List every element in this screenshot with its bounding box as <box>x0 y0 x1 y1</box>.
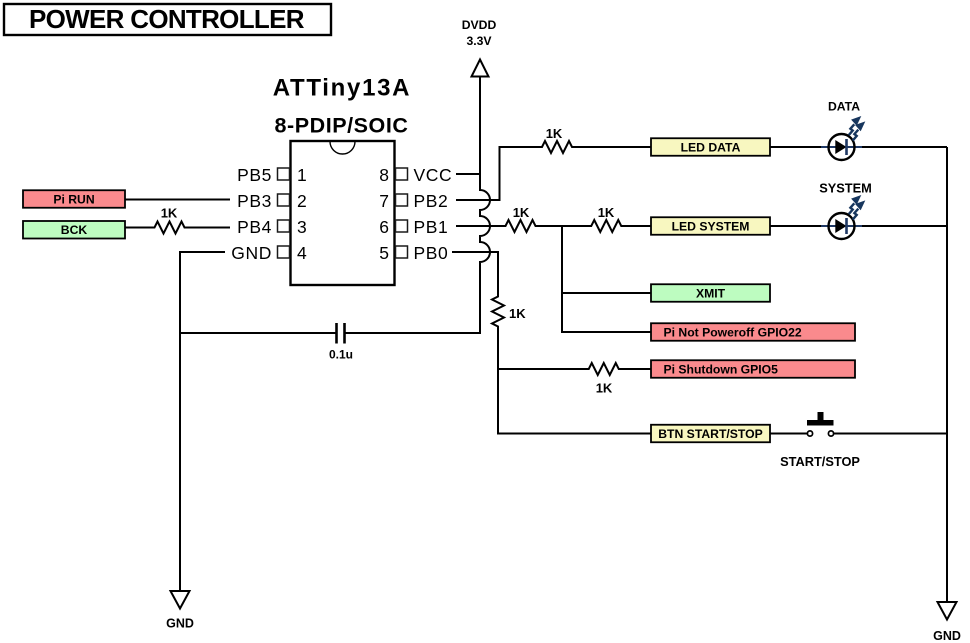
IC pin numbers <box>297 165 389 263</box>
wire XMIT branch <box>562 292 651 294</box>
wire resistor to Pi Shutdown box <box>624 368 651 370</box>
IC pin squares left <box>278 168 290 258</box>
wire resistor to LED DATA box <box>579 146 652 148</box>
svg-text:PB2: PB2 <box>414 191 449 211</box>
label box LED SYSTEM <box>651 217 770 235</box>
wire PB2 to riser up to LED DATA row <box>456 147 536 200</box>
svg-text:GND: GND <box>231 243 272 263</box>
title box POWER CONTROLLER <box>4 4 331 35</box>
label box Pi Shutdown GPIO5 <box>651 360 855 378</box>
resistor R3 1K (LED SYSTEM) <box>587 205 627 232</box>
wire right GND rail <box>946 147 948 602</box>
svg-text:Pi Not Poweroff GPIO22: Pi Not Poweroff GPIO22 <box>664 325 802 339</box>
label box Pi RUN <box>23 190 125 208</box>
svg-text:PB4: PB4 <box>237 217 272 237</box>
svg-text:0.1u: 0.1u <box>329 348 353 362</box>
resistor R2 1K (PB1) <box>505 205 537 232</box>
wire LED SYSTEM box to LED <box>770 225 822 227</box>
IC pin names <box>231 165 452 263</box>
svg-text:SYSTEM: SYSTEM <box>819 181 872 196</box>
svg-text:LED SYSTEM: LED SYSTEM <box>672 220 750 234</box>
svg-text:5: 5 <box>379 243 389 263</box>
svg-text:Pi RUN: Pi RUN <box>53 192 94 206</box>
svg-text:LED DATA: LED DATA <box>681 141 741 155</box>
resistor R4 1K (vertical) <box>492 295 526 328</box>
svg-text:PB5: PB5 <box>237 165 272 185</box>
svg-text:1K: 1K <box>513 205 530 220</box>
svg-text:1K: 1K <box>598 205 615 220</box>
wire to second resistor <box>537 225 588 227</box>
capacitor C1 0.1u <box>329 323 353 362</box>
svg-text:Pi Shutdown GPIO5: Pi Shutdown GPIO5 <box>664 362 779 376</box>
svg-text:1K: 1K <box>546 126 563 141</box>
svg-text:2: 2 <box>297 191 307 211</box>
wire junction drop to XMIT / Pi Not Poweroff <box>562 226 651 332</box>
power symbol DVDD 3.3V <box>462 18 497 77</box>
svg-text:1K: 1K <box>509 306 526 321</box>
svg-text:DATA: DATA <box>828 100 860 114</box>
svg-text:BCK: BCK <box>61 223 88 237</box>
IC U1 ATTiny13A body <box>273 75 411 286</box>
resistor R1 1K (LED DATA row) <box>536 126 579 153</box>
label box BCK <box>23 221 125 239</box>
svg-text:3.3V: 3.3V <box>466 34 492 48</box>
svg-text:DVDD: DVDD <box>462 18 497 32</box>
wire PB1 row <box>456 225 505 227</box>
wire GND rail to capacitor <box>180 332 336 334</box>
wire Pi Shutdown branch <box>498 368 584 370</box>
ground right <box>933 602 961 643</box>
wire resistor to PB4 <box>188 227 231 229</box>
wire LED DATA box to LED <box>770 146 822 148</box>
wire below resistor to BTN row <box>498 328 651 434</box>
wire LED DATA to right rail <box>862 146 947 148</box>
svg-text:XMIT: XMIT <box>696 287 726 301</box>
svg-text:8: 8 <box>379 165 389 185</box>
svg-text:6: 6 <box>379 217 389 237</box>
svg-text:1K: 1K <box>161 206 178 221</box>
svg-text:GND: GND <box>933 629 961 643</box>
wire DVDD rail with hops over PB2/PB1/PB0 <box>345 77 490 334</box>
switch SW1 START/STOP <box>770 412 947 469</box>
svg-text:BTN START/STOP: BTN START/STOP <box>658 427 763 441</box>
wire BCK to resistor <box>125 227 152 229</box>
resistor R5 1K (Pi Shutdown) <box>584 363 625 396</box>
LED D1 DATA <box>821 100 865 161</box>
svg-text:PB1: PB1 <box>414 217 449 237</box>
label box LED DATA <box>651 138 770 156</box>
wire resistor to LED SYSTEM box <box>626 225 651 227</box>
wire Pi RUN to PB3 <box>125 199 230 201</box>
label box XMIT <box>651 284 770 302</box>
LED D2 SYSTEM <box>819 181 872 240</box>
wire LED SYSTEM to right rail <box>862 225 947 227</box>
svg-text:PB3: PB3 <box>237 191 272 211</box>
IC pin squares right <box>396 168 408 258</box>
svg-text:7: 7 <box>379 191 389 211</box>
svg-text:3: 3 <box>297 217 307 237</box>
label box BTN START/STOP <box>651 425 770 443</box>
svg-text:1: 1 <box>297 165 307 185</box>
svg-text:POWER CONTROLLER: POWER CONTROLLER <box>29 4 305 34</box>
svg-text:1K: 1K <box>596 381 613 396</box>
svg-text:START/STOP: START/STOP <box>780 454 860 469</box>
svg-text:8-PDIP/SOIC: 8-PDIP/SOIC <box>275 114 409 138</box>
wire PB0 down to vertical resistor <box>452 252 498 296</box>
svg-text:GND: GND <box>166 617 194 631</box>
svg-text:PB0: PB0 <box>414 243 449 263</box>
wire GND pin to left rail <box>180 252 225 591</box>
resistor R6 1K (BCK) <box>152 206 188 234</box>
ground left <box>166 591 194 631</box>
svg-text:4: 4 <box>297 243 307 263</box>
wire VCC to DVDD rail <box>456 173 480 175</box>
label box Pi Not Poweroff GPIO22 <box>651 323 855 341</box>
svg-text:ATTiny13A: ATTiny13A <box>273 75 411 102</box>
svg-text:VCC: VCC <box>414 165 453 185</box>
